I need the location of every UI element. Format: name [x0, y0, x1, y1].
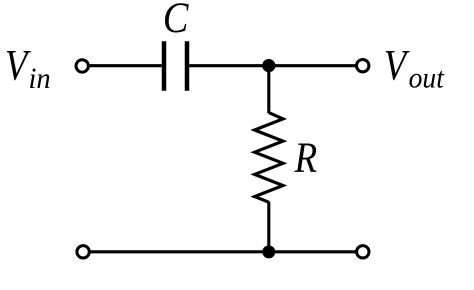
terminal circle: Vout - [357, 246, 369, 258]
svg-text:R: R [294, 133, 318, 181]
wire: Vin terminal to capacitor C left plate [90, 64, 162, 67]
resistor R zigzag [255, 113, 283, 203]
node: bottom junction dot [262, 245, 275, 258]
wire: resistor R bottom to bottom junction [267, 202, 270, 252]
svg-text:C: C [163, 0, 189, 42]
label C (capacitor value) [163, 0, 189, 42]
wire: bottom rail from Vin- terminal through junction to Vout- terminal [91, 250, 356, 253]
svg-text:out: out [409, 62, 445, 95]
terminal circle: Vin - [77, 246, 89, 258]
svg-text:V: V [384, 41, 411, 89]
capacitor C right plate [185, 41, 190, 90]
wire: capacitor C right plate to top junction to Vout terminal [189, 64, 355, 67]
label V_in (input node) [5, 41, 32, 89]
svg-text:V: V [5, 41, 32, 89]
label V_out (output node) [384, 41, 411, 89]
terminal circle: Vin + [76, 60, 88, 72]
node: top junction dot [262, 59, 275, 72]
wire: top junction down to resistor R [267, 66, 270, 114]
label R (resistor value) [294, 133, 318, 181]
svg-text:in: in [29, 62, 51, 95]
terminal circle: Vout + [357, 59, 369, 71]
capacitor C left plate [162, 41, 167, 90]
